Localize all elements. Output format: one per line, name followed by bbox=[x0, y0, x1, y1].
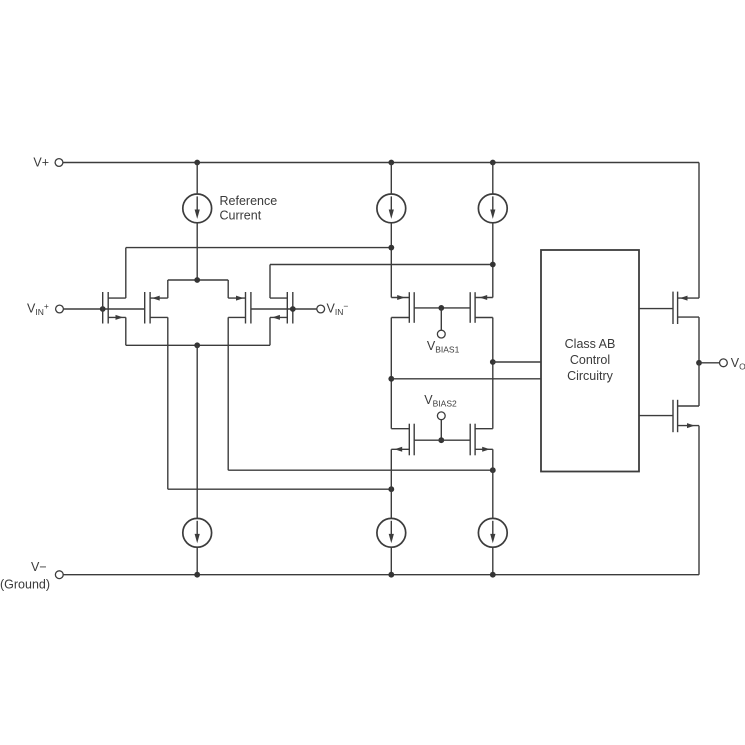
node: VIN- junction at Q2 gate bbox=[290, 306, 296, 312]
wire: Q1 source down to NMOS tail wire bbox=[125, 317, 127, 345]
node: VBIAS2 junction bbox=[438, 437, 444, 443]
transistor Q1 (NMOS, VIN+ input) bbox=[103, 292, 126, 324]
wire: Q1 drain to Q5 source node (horizontal) bbox=[126, 247, 392, 249]
wire: Q1 drain up to folded node wire bbox=[125, 248, 127, 299]
transistor Q3 (PMOS, VIN+ input) bbox=[145, 292, 168, 324]
transistor Q8 (NMOS cascode, right) bbox=[470, 424, 493, 456]
wire: VIN+ lead to Q1/Q3 gates bbox=[63, 308, 144, 310]
wire: Q4 drain to Q8 source node (horizontal) bbox=[228, 469, 493, 471]
transistor Q2 (NMOS, VIN- input) bbox=[270, 292, 293, 324]
svg-text:Current: Current bbox=[220, 209, 262, 223]
node: output junction bbox=[696, 360, 702, 366]
wire: V+ rail bbox=[63, 162, 699, 164]
wire: Q3 source up to PMOS tail wire bbox=[167, 280, 169, 298]
wire: Q2 drain up to folded node wire bbox=[269, 265, 271, 299]
wire: PMOS pair tail (horizontal) bbox=[168, 279, 228, 281]
current source I3 bbox=[478, 194, 507, 223]
wire: VIN- lead from Q4 gate bbox=[251, 308, 317, 310]
wire: Q8 source down to I6 bbox=[492, 449, 494, 518]
wire: I6 input stub bbox=[492, 547, 494, 575]
wire: Q5/Q6 gate bias wire bbox=[414, 307, 470, 309]
wire: NMOS tail down to I4 bbox=[196, 345, 198, 518]
node: Q1 drain junction at I2 output bbox=[388, 245, 394, 251]
svg-text:VIN+: VIN+ bbox=[27, 301, 49, 317]
node: class AB left input junction bbox=[388, 376, 394, 382]
node: PMOS tail junction at I1 output bbox=[194, 277, 200, 283]
terminal: VIN+ bbox=[56, 305, 64, 313]
node: NMOS tail junction to I4 bbox=[194, 342, 200, 348]
wire: I4 input stub bbox=[196, 547, 198, 575]
wire: Q3 drain to Q7 source node (horizontal) bbox=[168, 488, 391, 490]
transistor Q7 (NMOS cascode, left) bbox=[391, 424, 414, 456]
svg-text:VIN−: VIN− bbox=[327, 301, 349, 317]
svg-text:V+: V+ bbox=[33, 156, 49, 170]
wire: VBIAS1 stub bbox=[440, 308, 442, 330]
transistor Q9 (PMOS output) bbox=[673, 292, 699, 324]
wire: Q10 drain up to output node bbox=[698, 363, 700, 406]
wire: I1 output down to PMOS pair tail bbox=[196, 223, 198, 280]
current source I4 bbox=[183, 518, 212, 547]
terminal: V- (ground) bbox=[55, 571, 63, 579]
node: class AB right input junction bbox=[490, 359, 496, 365]
wire: I2 top stub from V+ rail bbox=[390, 163, 392, 195]
svg-text:V−: V− bbox=[31, 560, 47, 574]
wire: I3 output down to Q6 source bbox=[492, 223, 494, 298]
wire: I2 output down to Q5 source bbox=[390, 223, 392, 298]
wire: Q2 source down to NMOS tail wire bbox=[269, 317, 271, 345]
node: Q2 drain junction at I3 output bbox=[490, 262, 496, 268]
wire: Q4 drain down bbox=[227, 317, 229, 470]
wire: output node to VO terminal bbox=[699, 362, 720, 364]
wire: I5 input stub bbox=[390, 547, 392, 575]
node: V- rail junction to I6 bbox=[490, 572, 496, 578]
wire: VBIAS2 stub bbox=[440, 420, 442, 441]
svg-text:VBIAS1: VBIAS1 bbox=[427, 339, 460, 355]
wire: Q3 drain down bbox=[167, 317, 169, 489]
wire: Q10 source down to V- rail bbox=[698, 426, 700, 575]
wire: Q2 drain to Q6 source node (horizontal) bbox=[270, 264, 493, 266]
wire: Q7 source down to I5 bbox=[390, 449, 392, 518]
wire: Q5 drain to class AB box bbox=[391, 378, 541, 380]
terminal: V+ bbox=[55, 159, 63, 167]
current source I6 bbox=[478, 518, 507, 547]
wire: Q7/Q8 gate bias wire bbox=[414, 439, 470, 441]
node: Q3 drain junction at Q7 source bbox=[388, 486, 394, 492]
svg-text:Reference: Reference bbox=[220, 194, 278, 208]
current source I2 bbox=[377, 194, 406, 223]
wire: class AB box to Q9 gate bbox=[639, 308, 673, 310]
node: V+ rail junction to I3 bbox=[490, 160, 496, 166]
terminal: VBIAS2 bbox=[437, 412, 445, 420]
svg-text:Control: Control bbox=[570, 353, 610, 367]
node: Q4 drain junction at Q8 source bbox=[490, 467, 496, 473]
wire: Q6 drain down to class AB right node bbox=[492, 318, 494, 429]
wire: I3 top stub from V+ rail bbox=[492, 163, 494, 195]
transistor Q5 (PMOS cascode, left) bbox=[391, 292, 414, 323]
terminal: VBIAS1 bbox=[437, 330, 445, 338]
node: V+ rail junction to I2 bbox=[388, 160, 394, 166]
wire: Q9 drain down to output node bbox=[698, 317, 700, 363]
terminal: VIN- bbox=[317, 305, 325, 313]
wire: NMOS pair tail (horizontal) bbox=[126, 344, 270, 346]
node: VBIAS1 junction bbox=[438, 305, 444, 311]
svg-text:(Ground): (Ground) bbox=[0, 577, 50, 591]
current source I5 bbox=[377, 518, 406, 547]
svg-text:Class AB: Class AB bbox=[565, 337, 616, 351]
transistor Q6 (PMOS cascode, right) bbox=[470, 292, 493, 323]
transistor Q4 (PMOS, VIN- input) bbox=[228, 292, 251, 324]
node: V- rail junction to I4 bbox=[194, 572, 200, 578]
svg-text:Circuitry: Circuitry bbox=[567, 369, 614, 383]
wire: Q5 drain down to class AB left node bbox=[390, 318, 392, 429]
block U1: Class AB Control Circuitry box bbox=[541, 250, 639, 472]
node: VIN+ junction at Q1 gate bbox=[100, 306, 106, 312]
node: V+ rail junction to I1 bbox=[194, 160, 200, 166]
wire: Q4 source up to PMOS tail wire bbox=[227, 280, 229, 298]
transistor Q10 (NMOS output) bbox=[673, 400, 699, 432]
wire: I1 top stub from V+ rail bbox=[196, 163, 198, 195]
wire: class AB box to Q10 gate bbox=[639, 415, 673, 417]
terminal: VO bbox=[720, 359, 728, 367]
wire: V+ rail right drop to output PMOS source bbox=[698, 163, 700, 299]
current source I1 (reference current) bbox=[183, 194, 212, 223]
node: V- rail junction to I5 bbox=[388, 572, 394, 578]
svg-text:VO: VO bbox=[731, 356, 745, 372]
svg-text:VBIAS2: VBIAS2 bbox=[424, 393, 457, 409]
wire: Q6 drain to class AB box bbox=[493, 361, 541, 363]
wire: V- (ground) rail bbox=[63, 574, 699, 576]
